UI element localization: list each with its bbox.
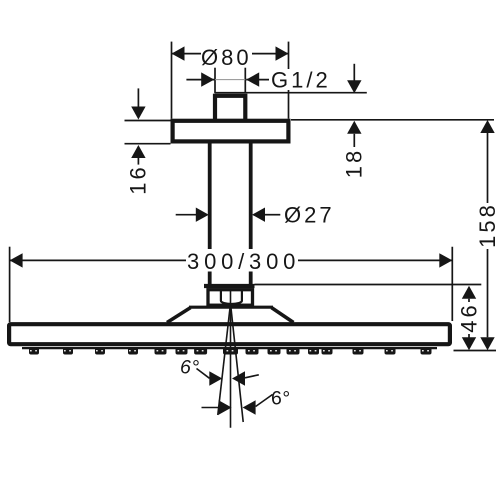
svg-text:46: 46: [456, 302, 481, 332]
svg-text:6°: 6°: [180, 357, 200, 379]
svg-text:18: 18: [342, 148, 367, 178]
svg-text:Ø80: Ø80: [201, 45, 252, 70]
svg-text:158: 158: [475, 202, 500, 248]
svg-text:16: 16: [126, 164, 151, 194]
svg-text:300/300: 300/300: [187, 249, 300, 274]
svg-text:6°: 6°: [271, 388, 291, 410]
svg-text:G1/2: G1/2: [271, 68, 331, 93]
svg-text:Ø27: Ø27: [284, 203, 335, 228]
